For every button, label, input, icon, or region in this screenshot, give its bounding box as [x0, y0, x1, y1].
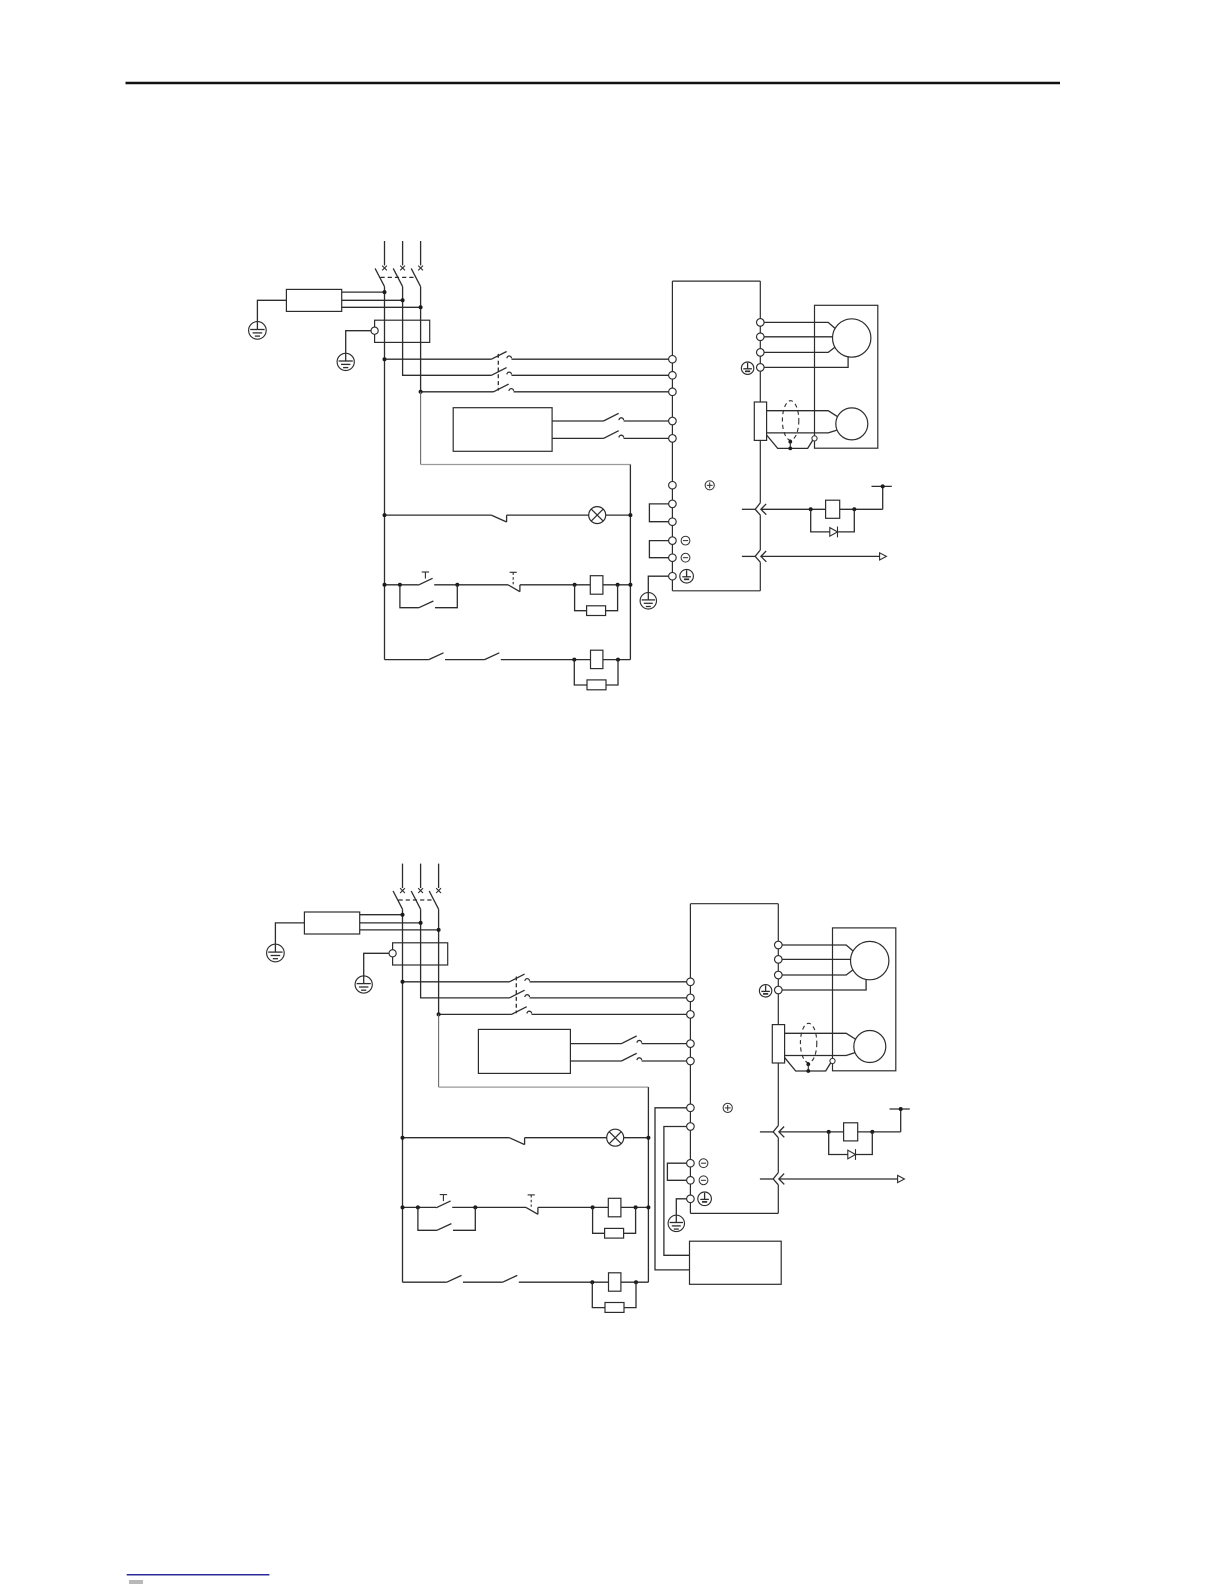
wire row 1 to servopack (A) [512, 358, 669, 360]
node shield tie upper (B) [806, 1062, 810, 1066]
encoder shield ellipse (dashed) (A) [782, 401, 798, 440]
wire noise filter output 3 (A) [342, 306, 421, 308]
wire brake 2 to servopack (A) [624, 437, 669, 439]
circuit breaker QF mechanical link (B) [399, 899, 434, 901]
terminal right 3 (A) [757, 349, 765, 357]
wire motor phase W (A) [764, 347, 835, 352]
wire phase 2 vertical (B) [421, 909, 510, 998]
wire relay1 bypass right (B) [453, 1207, 475, 1230]
node contactor ground terminal (A) [371, 327, 378, 334]
wire brake 2 to servopack (B) [642, 1060, 687, 1062]
wire lamp row left (A) [385, 514, 492, 516]
encoder E disc (A) [836, 408, 868, 440]
servomotor M winding (A) [833, 319, 871, 357]
wire noise filter ground lead (B) [275, 923, 304, 945]
contactor main contact 2 (B) [509, 990, 524, 998]
node battery junction left (B) [827, 1130, 831, 1134]
wire shield tie (A) [789, 442, 791, 449]
wire brake 1 to servopack (A) [624, 420, 669, 422]
symbol PE beside terminal (B) [698, 1192, 712, 1206]
fuse mark line 3 (A) [418, 266, 423, 271]
wire I-O signal line (A) [761, 555, 880, 557]
node connector shell (A) [812, 436, 817, 441]
wire row 3 to servopack (B) [532, 1013, 687, 1015]
terminal left 6 (B) [687, 1104, 695, 1112]
terminal right 4 (A) [757, 364, 765, 372]
node relay1 coil left (A) [573, 583, 577, 587]
node relay1 branch right (A) [455, 583, 459, 587]
wire noise filter output 1 (A) [342, 291, 385, 293]
servo amplifier U outline right (A) [759, 281, 761, 503]
wire incoming supply line 2 (B) [420, 864, 422, 888]
diode D1 (B) [848, 1150, 856, 1159]
wire shield tie (B) [807, 1064, 809, 1071]
wire surge branch 1 right (B) [624, 1207, 636, 1233]
switch S9 blade (B) [503, 1275, 518, 1282]
noise filter NF box (A) [286, 289, 341, 311]
wire CN8 stub inside (B) [760, 1131, 774, 1133]
wire motor frame ground (B) [782, 979, 866, 990]
symbol minus 1 (A) [681, 536, 690, 545]
circuit breaker QF pole 3 blade (A) [411, 268, 420, 286]
terminal left 6 (A) [669, 481, 677, 489]
fuse mark line 1 (A) [382, 266, 387, 271]
wire brake supply 2 to contact (B) [570, 1060, 621, 1062]
wire brake supply 1 to contact (B) [570, 1043, 621, 1045]
node junction filter-3 (B) [437, 928, 441, 932]
wire contactor ground lead (B) [364, 953, 389, 976]
node relay1 coil left (B) [591, 1205, 595, 1209]
wire brake supply 2 to contact (A) [552, 437, 603, 439]
relay coil KA2 (A) [591, 650, 603, 668]
relay coil KA1 (A) [590, 576, 603, 595]
wire row 2 to servopack (A) [512, 374, 669, 376]
wire encoder signal A (A) [767, 411, 838, 417]
ground E1 (noise filter) (B) [267, 944, 285, 962]
node lamp row right (B) [646, 1136, 650, 1140]
surge resistor R1 (B) [605, 1228, 624, 1238]
terminal left 2 (B) [687, 994, 695, 1002]
brake contact 2 (A) [604, 431, 619, 439]
wire motor phase U (B) [782, 945, 853, 951]
wire CN1 stub inside (A) [742, 555, 756, 557]
wire CN1 stub inside (B) [760, 1178, 774, 1180]
wire CN8 stub inside (A) [742, 508, 756, 510]
indicator lamp HL (B) [607, 1129, 624, 1146]
servo amplifier U outline top (A) [672, 280, 760, 282]
wire noise filter output 2 (A) [342, 299, 403, 301]
wire row 1 to servopack (B) [530, 981, 687, 983]
switch S7 (bypass) blade (A) [419, 601, 434, 608]
pushbutton PB2 actuator (dashed) (A) [512, 572, 514, 584]
wire relay2 mid-b (B) [519, 1281, 609, 1283]
wire lamp row mid (A) [507, 514, 589, 516]
relay coil KA2 (B) [609, 1273, 621, 1291]
node shield tie lower (A) [788, 447, 792, 451]
circuit breaker QF pole 1 blade (B) [393, 891, 402, 909]
wire motor phase V (A) [764, 336, 832, 338]
wire noise filter ground lead (A) [257, 300, 286, 322]
battery unit BT box (B) [844, 1123, 858, 1141]
wire noise filter output 3 (B) [360, 929, 439, 931]
terminal right 2 (A) [757, 333, 765, 341]
wire noise filter output 1 (B) [360, 914, 403, 916]
encoder E disc (B) [854, 1031, 886, 1063]
wire relay1 mid-a (B) [452, 1206, 526, 1208]
symbol plus (main circuit +) (A) [705, 481, 714, 490]
wire diode branch (A) [811, 509, 855, 532]
pushbutton PB1 actuator (A) [424, 572, 426, 579]
wire relay1 left (B) [403, 1206, 437, 1208]
node junction filter-2 (B) [419, 921, 423, 925]
brake contact 2 (B) [622, 1053, 637, 1061]
fuse mark line 1 (B) [400, 888, 405, 893]
encoder shield ellipse (dashed) (B) [800, 1023, 816, 1062]
connector CN1 symbol (A) [755, 550, 760, 562]
wire surge branch 2 right (B) [624, 1282, 636, 1307]
servo amplifier U outline left (A) [671, 281, 673, 591]
node relay1 coil right (B) [634, 1205, 638, 1209]
ground E1 (noise filter) (A) [249, 322, 267, 340]
wire relay1 mid-b (A) [520, 584, 590, 586]
wire row 3 to servopack (A) [514, 391, 669, 393]
terminal left 8 (B) [687, 1159, 695, 1167]
contactor main contact 3 (B) [512, 1007, 527, 1015]
wire lamp row mid (B) [525, 1137, 607, 1139]
wire diode branch (B) [829, 1132, 873, 1155]
node junction filter-1 (B) [401, 913, 405, 917]
battery unit BT box (A) [826, 500, 840, 518]
wire relay1 right (A) [603, 584, 631, 586]
switch S6 (lamp) (A) [491, 515, 506, 522]
wire relay2 mid-a (B) [463, 1281, 503, 1283]
wire left rail / phase 1 vertical (A) [384, 287, 386, 660]
wire relay2 left (A) [385, 659, 429, 661]
node relay1 rail (B) [401, 1205, 405, 1209]
wire motor phase W (B) [782, 970, 853, 975]
node battery junction right (B) [870, 1130, 874, 1134]
contactor main contact 1 (B) [509, 974, 524, 982]
wire relay1 bypass branch (B) [418, 1207, 437, 1230]
arrow I-O signal (B) [898, 1175, 905, 1182]
wire I-O signal line (B) [779, 1178, 898, 1180]
surge resistor R2 (A) [587, 680, 606, 690]
pushbutton PB1 blade (A) [418, 578, 433, 585]
node connector shell (B) [830, 1058, 835, 1063]
circuit breaker QF pole 2 blade (A) [393, 268, 402, 286]
symbol PE beside motor terminal (A) [741, 362, 753, 374]
wire control power run (gray) (B) [439, 1086, 649, 1088]
ground E2 (contactor) (A) [337, 353, 354, 370]
symbol minus 2 (A) [681, 553, 690, 562]
wire servopack ground lead (B) [676, 1199, 686, 1215]
node contactor ground terminal (B) [389, 950, 396, 957]
servo amplifier U outline left (B) [689, 904, 691, 1214]
wire motor phase U (A) [764, 322, 835, 328]
node junction filter-3 (A) [419, 305, 423, 309]
wire motor frame ground (A) [764, 357, 848, 368]
pushbutton PB2 blade (B) [526, 1207, 538, 1214]
node junction filter-1 (A) [383, 290, 387, 294]
terminal left 5 (A) [669, 435, 677, 443]
servo amplifier U outline right (B) [777, 904, 779, 1126]
node junction filter-2 (A) [401, 298, 405, 302]
circuit breaker QF pole 3 blade (B) [429, 891, 438, 909]
wire L1 row to contact (A) [385, 358, 492, 360]
node junction L3 branch (B) [437, 1012, 441, 1016]
wire surge branch 1 right (A) [606, 585, 618, 611]
fuse mark line 2 (A) [400, 266, 405, 271]
wire surge branch 2 (A) [574, 660, 587, 685]
terminal left 1 (A) [669, 355, 677, 363]
node lamp row right (A) [628, 513, 632, 517]
node relay2 coil left (A) [572, 658, 576, 662]
terminal right 1 (A) [757, 319, 765, 327]
symbol PE beside motor terminal (B) [759, 985, 771, 997]
node junction L1 branch (B) [401, 980, 405, 984]
connector CN8 symbol (A) [755, 503, 760, 515]
circuit breaker QF pole 1 blade (A) [375, 268, 384, 286]
servo amplifier U outline top (B) [690, 903, 778, 905]
surge resistor R2 (B) [605, 1303, 624, 1313]
servomotor box (A) [815, 305, 878, 448]
node battery supply tap (B) [899, 1107, 903, 1111]
wire control power drop (gray) (A) [420, 392, 422, 465]
terminal left 9 (B) [687, 1177, 695, 1185]
encoder connector CN2 box (A) [754, 402, 766, 440]
switch S7 (bypass) blade (B) [437, 1224, 452, 1231]
node battery supply tap (A) [881, 484, 885, 488]
wire relay2 right (A) [603, 659, 631, 661]
terminal left 4 (B) [687, 1040, 695, 1048]
surge resistor R1 (A) [587, 606, 606, 616]
node shield tie upper (A) [788, 440, 792, 444]
wire incoming supply line 1 (A) [384, 241, 386, 265]
wire right rail vertical (B) [647, 1087, 649, 1282]
wire brake 1 to servopack (B) [642, 1043, 687, 1045]
wire phase 3 vertical (B) [439, 909, 512, 1014]
wire control power drop (gray) (B) [438, 1014, 440, 1087]
connector CN1 symbol (B) [773, 1173, 778, 1185]
servo amplifier U outline bottom (B) [690, 1212, 778, 1214]
wire left rail / phase 1 vertical (B) [402, 909, 404, 1282]
terminal left 9 (A) [669, 537, 677, 545]
wire right rail vertical (A) [629, 465, 631, 660]
wire relay1 bypass branch (A) [400, 585, 419, 608]
node relay1 branch left (B) [416, 1205, 420, 1209]
terminal right 3 (B) [775, 971, 783, 979]
pushbutton PB1 actuator (B) [442, 1195, 444, 1202]
wire relay1 bypass right (A) [435, 585, 457, 608]
node relay2 coil left (B) [590, 1280, 594, 1284]
node junction L1 branch (A) [383, 357, 387, 361]
servo amplifier U outline bottom (A) [672, 590, 760, 592]
wire lamp row right (A) [606, 514, 631, 516]
header rule [126, 82, 1061, 85]
connector CN8 symbol (B) [773, 1126, 778, 1138]
symbol minus 2 (B) [699, 1176, 708, 1185]
wire surge branch 2 right (A) [606, 660, 618, 685]
contactor main contact 2 (A) [491, 368, 506, 376]
terminal left 3 (A) [669, 388, 677, 396]
wire DC-bus jumper bracket (A) [649, 541, 668, 558]
indicator lamp HL (A) [589, 507, 606, 524]
wire relay1 left (A) [385, 584, 419, 586]
wire regen unit lead 1 (B) [655, 1108, 690, 1270]
node lamp row left (A) [383, 513, 387, 517]
symbol minus 1 (B) [699, 1159, 708, 1168]
terminal left 10 (A) [669, 554, 677, 562]
switch S8 blade (B) [447, 1275, 462, 1282]
wire battery line (A) [761, 508, 826, 510]
arrow I-O signal (A) [880, 553, 887, 560]
wire relay2 right (B) [621, 1281, 649, 1283]
switch S6 (lamp) (B) [509, 1138, 524, 1145]
terminal left 7 (B) [687, 1123, 695, 1131]
wire cable shield drain (B) [785, 1058, 831, 1071]
ground E3 (servopack) (A) [640, 593, 656, 609]
terminal left 10 (B) [687, 1195, 695, 1203]
pushbutton PB2 blade (A) [508, 585, 520, 592]
switch S9 blade (A) [485, 653, 500, 660]
node relay1 rail (A) [383, 583, 387, 587]
wire relay2 left (B) [403, 1281, 447, 1283]
brake power supply box (B) [478, 1029, 570, 1073]
pushbutton PB2 actuator (dashed) (B) [530, 1195, 532, 1207]
noise filter NF box (B) [304, 912, 359, 934]
wire battery supply bar (A) [872, 485, 892, 487]
brake power supply box (A) [453, 408, 552, 452]
servomotor box (B) [833, 928, 896, 1071]
wire encoder signal B (A) [767, 430, 837, 433]
contactor main contact 1 (A) [491, 352, 506, 360]
terminal left 8 (A) [669, 518, 677, 526]
node junction L3 branch (A) [419, 390, 423, 394]
terminal right 4 (B) [775, 986, 783, 994]
node relay2 coil right (A) [616, 658, 620, 662]
wire cable shield drain (A) [767, 435, 813, 448]
node shield tie lower (B) [806, 1069, 810, 1073]
terminal left 1 (B) [687, 978, 695, 986]
circuit breaker QF mechanical link (A) [381, 276, 416, 278]
magnetic contactor KM box (A) [375, 320, 430, 342]
brake contact 1 (B) [622, 1036, 637, 1044]
wire lamp row left (B) [403, 1137, 510, 1139]
wire control-power jumper bracket (A) [649, 504, 668, 522]
wire relay1 mid-b (B) [538, 1206, 608, 1208]
wire L1 row to contact (B) [403, 981, 510, 983]
fuse mark line 3 (B) [436, 888, 441, 893]
ground E2 (contactor) (B) [355, 976, 372, 993]
wire noise filter output 2 (B) [360, 922, 421, 924]
terminal left 11 (A) [669, 572, 677, 580]
symbol PE beside terminal (A) [680, 569, 694, 583]
fuse mark line 2 (B) [418, 888, 423, 893]
wire encoder signal A (B) [785, 1033, 856, 1039]
encoder connector CN2 box (B) [772, 1025, 784, 1063]
node relay1 rail right (A) [628, 583, 632, 587]
wire row 2 to servopack (B) [530, 997, 687, 999]
terminal left 5 (B) [687, 1057, 695, 1065]
terminal left 7 (A) [669, 500, 677, 508]
wire relay2 mid-b (A) [501, 659, 591, 661]
wire incoming supply line 3 (B) [438, 864, 440, 888]
wire contactor ground lead (A) [346, 331, 371, 354]
wire lamp row right (B) [624, 1137, 649, 1139]
ground E3 (servopack) (B) [668, 1215, 684, 1231]
wire surge branch 1 (B) [593, 1207, 605, 1233]
contactor contacts link (dashed) (B) [515, 977, 517, 1014]
pushbutton PB1 blade (B) [436, 1201, 451, 1208]
switch S8 blade (A) [429, 653, 444, 660]
wire encoder signal B (B) [785, 1053, 855, 1056]
wire brake supply 1 to contact (A) [552, 420, 603, 422]
footer rule (blue) [127, 1574, 270, 1576]
servomotor M winding (B) [851, 941, 889, 979]
magnetic contactor KM box (B) [393, 943, 448, 965]
terminal left 2 (A) [669, 372, 677, 380]
wire incoming supply line 3 (A) [420, 241, 422, 265]
circuit breaker QF pole 2 blade (B) [411, 891, 420, 909]
symbol plus (main circuit +) (B) [723, 1103, 732, 1112]
wire motor phase V (B) [782, 958, 850, 960]
node relay1 branch left (A) [398, 583, 402, 587]
wire DC-bus jumper bracket (B) [667, 1163, 686, 1180]
wire phase 2 vertical (A) [403, 287, 492, 376]
wire relay2 mid-a (A) [445, 659, 485, 661]
wire servopack ground lead (A) [648, 576, 668, 592]
wire regen unit lead 2 (B) [664, 1127, 690, 1256]
wire phase 3 vertical (A) [421, 287, 494, 392]
wire incoming supply line 1 (B) [402, 864, 404, 888]
terminal right 2 (B) [775, 956, 783, 964]
contactor contacts link (dashed) (A) [497, 354, 499, 391]
wire relay1 mid-a (A) [434, 584, 508, 586]
wire control power run (gray) (A) [421, 464, 631, 466]
diode D1 (A) [830, 528, 838, 537]
node relay1 coil right (A) [616, 583, 620, 587]
brake contact 1 (A) [604, 413, 619, 421]
wire incoming supply line 2 (A) [402, 241, 404, 265]
relay coil KA1 (B) [608, 1198, 621, 1217]
wire battery supply bar (B) [890, 1108, 910, 1110]
terminal right 1 (B) [775, 941, 783, 949]
regenerative resistor unit box (B) [690, 1241, 782, 1284]
node relay2 coil right (B) [634, 1280, 638, 1284]
wire relay1 right (B) [621, 1206, 649, 1208]
node battery junction left (A) [809, 507, 813, 511]
node relay1 branch right (B) [473, 1205, 477, 1209]
wire surge branch 1 (A) [575, 585, 587, 611]
wire surge branch 2 (B) [592, 1282, 605, 1307]
page corner artifact [129, 1580, 143, 1584]
terminal left 4 (A) [669, 417, 677, 425]
node relay1 rail right (B) [646, 1205, 650, 1209]
node lamp row left (B) [401, 1136, 405, 1140]
node battery junction right (A) [852, 507, 856, 511]
terminal left 3 (B) [687, 1011, 695, 1019]
wire battery line (B) [779, 1131, 844, 1133]
contactor main contact 3 (A) [494, 384, 509, 392]
